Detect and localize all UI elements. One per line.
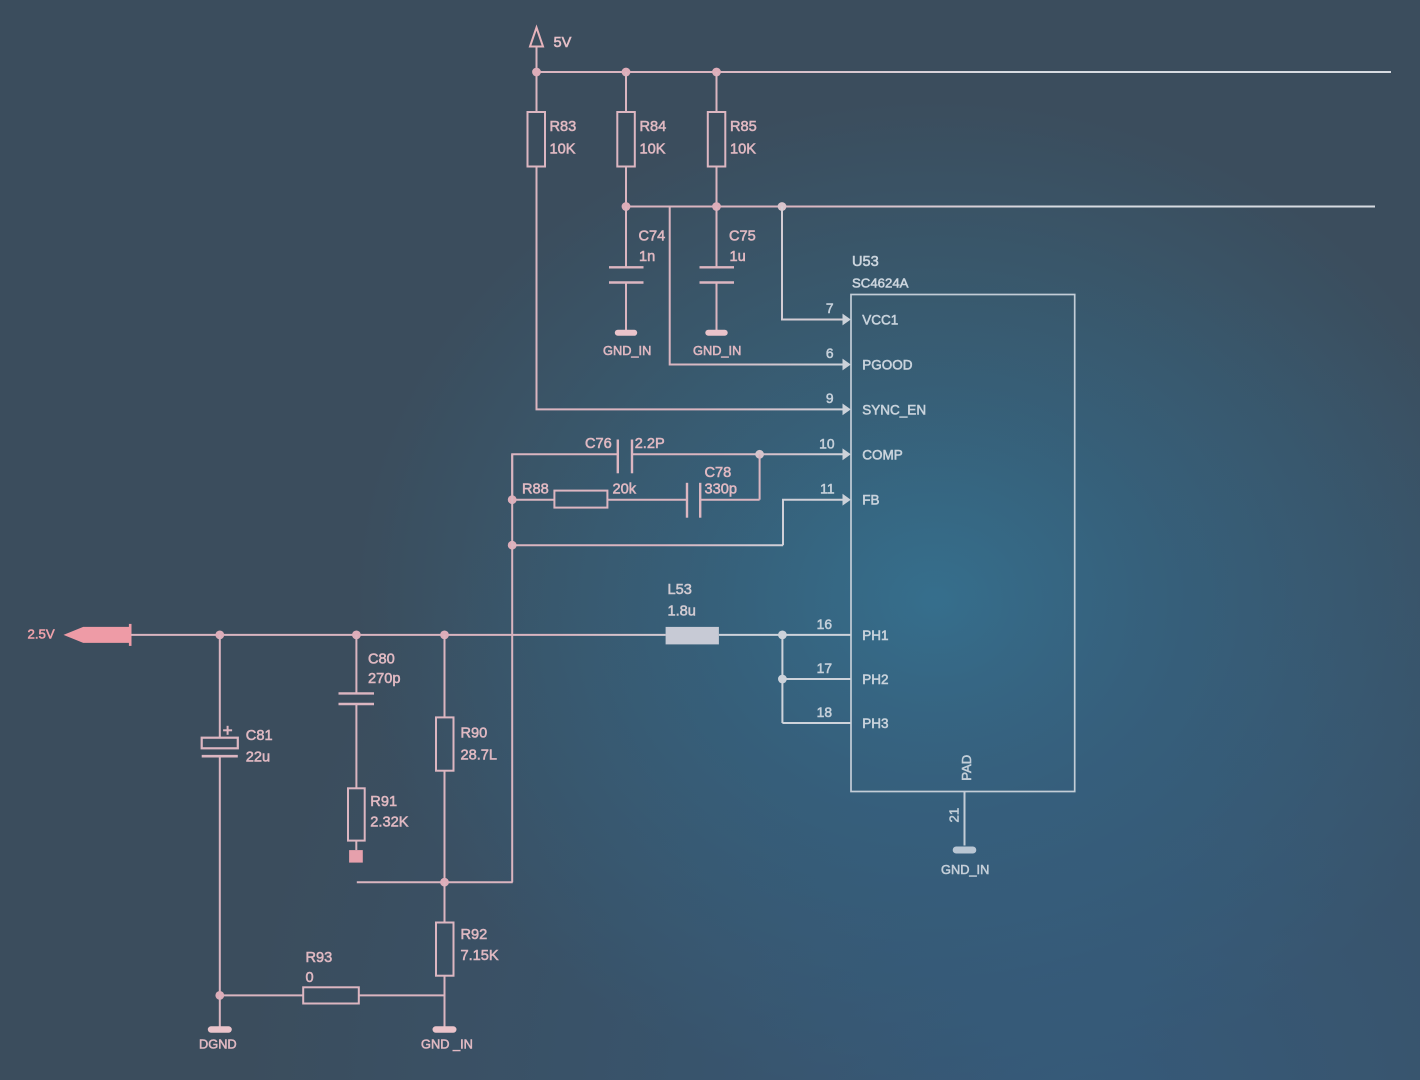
wire feedback bottom horizontal — [357, 881, 513, 883]
wire L53 to PH1 — [719, 634, 851, 636]
pin 7 arrowhead — [843, 314, 851, 326]
node dot C81 — [215, 631, 224, 640]
node junction dot rail1 at R83 — [532, 68, 541, 77]
svg-text:U53: U53 — [852, 254, 879, 270]
power flag 2.5V — [28, 624, 131, 646]
resistor R93 — [220, 950, 445, 1004]
node junction dot rail2 at C74 — [622, 202, 631, 211]
svg-text:C74: C74 — [639, 229, 666, 245]
node dot FB line left — [508, 541, 517, 550]
resistor R91 — [348, 788, 409, 840]
svg-text:10K: 10K — [550, 141, 576, 157]
pin 9 arrowhead — [843, 404, 851, 416]
svg-text:270p: 270p — [368, 671, 400, 687]
wire R84 top — [625, 72, 627, 112]
svg-text:GND _IN: GND _IN — [421, 1036, 473, 1051]
wire pin7 VCC1 branch — [782, 207, 844, 320]
capacitor C81 polarized — [202, 635, 273, 996]
capacitor C74 — [609, 207, 665, 331]
node dot R93 left / C81 bottom — [215, 991, 224, 1000]
svg-text:R91: R91 — [370, 794, 397, 810]
svg-text:9: 9 — [826, 391, 834, 406]
wire PH2 — [782, 678, 851, 680]
svg-text:DGND: DGND — [199, 1036, 237, 1051]
svg-text:R90: R90 — [461, 725, 488, 741]
node dot C80 — [352, 631, 361, 640]
svg-text:GND_IN: GND_IN — [603, 343, 651, 358]
wire vertical feedback column — [511, 454, 513, 882]
inductor L53 — [666, 582, 719, 644]
svg-text:R88: R88 — [522, 482, 549, 498]
ground DGND — [199, 1026, 237, 1051]
svg-text:2.5V: 2.5V — [28, 627, 55, 642]
svg-text:R85: R85 — [730, 119, 757, 135]
power symbol 5V — [530, 28, 572, 52]
svg-text:2.2P: 2.2P — [635, 436, 665, 452]
svg-text:21: 21 — [947, 808, 962, 823]
svg-text:PGOOD: PGOOD — [862, 357, 913, 372]
wire R85 top — [716, 72, 718, 112]
node dot COMP feedback — [755, 450, 764, 459]
wire second rail — [626, 206, 1375, 208]
svg-text:10K: 10K — [640, 141, 666, 157]
svg-text:R83: R83 — [550, 119, 577, 135]
svg-text:0: 0 — [306, 970, 314, 986]
wire COMP branch with C76 gap — [512, 454, 618, 499]
ground GND_IN under PAD — [941, 847, 989, 878]
svg-text:2.32K: 2.32K — [370, 815, 408, 831]
svg-text:R84: R84 — [640, 119, 667, 135]
wire R84 bottom — [625, 167, 627, 207]
node dot PH2 branch — [778, 675, 787, 684]
capacitor C75 — [700, 207, 756, 331]
svg-text:7: 7 — [826, 301, 834, 316]
terminal square below R91 — [349, 850, 363, 863]
wire top rail — [537, 71, 1392, 73]
svg-text:1.8u: 1.8u — [668, 603, 696, 619]
capacitor C80 — [339, 635, 401, 788]
svg-text:L53: L53 — [668, 582, 692, 598]
ground GND_IN under C74 — [603, 330, 651, 358]
node junction dot rail1 at R84 — [622, 68, 631, 77]
svg-text:C75: C75 — [729, 229, 756, 245]
ground GND _IN bottom — [421, 1026, 473, 1051]
svg-text:6: 6 — [826, 346, 834, 361]
svg-text:GND_IN: GND_IN — [941, 862, 989, 877]
wire 5V vertical to rail — [536, 47, 538, 113]
wire PH3 — [782, 722, 851, 724]
resistor R83 — [528, 112, 577, 167]
node dot PH1 branch — [778, 631, 787, 640]
wire R91 to terminal — [355, 841, 357, 851]
node dot R92 top — [440, 878, 449, 887]
ground GND_IN under C75 — [693, 330, 741, 358]
svg-text:18: 18 — [817, 705, 833, 720]
svg-text:SC4624A: SC4624A — [852, 276, 909, 291]
svg-text:C76: C76 — [585, 436, 612, 452]
resistor R92 — [436, 882, 499, 1026]
wire 2.5V rail to L53 — [445, 634, 666, 636]
resistor R90 — [436, 635, 497, 882]
wire pin6 PGOOD branch — [670, 207, 844, 365]
svg-text:VCC1: VCC1 — [862, 312, 898, 327]
node junction dot rail2 at VCC1 branch — [778, 202, 787, 211]
svg-text:PH3: PH3 — [862, 716, 888, 731]
svg-text:28.7L: 28.7L — [461, 748, 498, 764]
wire R83 bottom / pin9 SYNC_EN branch — [537, 167, 844, 410]
capacitor C76 — [585, 436, 665, 473]
svg-text:FB: FB — [862, 492, 879, 507]
svg-text:330p: 330p — [705, 482, 737, 498]
node dot R88 left — [508, 495, 517, 504]
svg-text:20k: 20k — [613, 482, 637, 498]
svg-text:R93: R93 — [306, 950, 333, 966]
svg-text:16: 16 — [817, 617, 833, 632]
svg-text:10: 10 — [819, 437, 835, 452]
svg-text:GND_IN: GND_IN — [693, 343, 741, 358]
svg-text:PAD: PAD — [959, 755, 974, 781]
pin 10 arrowhead — [843, 448, 851, 460]
svg-text:7.15K: 7.15K — [461, 948, 499, 964]
svg-text:SYNC_EN: SYNC_EN — [862, 402, 926, 417]
wire DGND drop — [219, 995, 221, 1026]
wire FB branch — [512, 544, 783, 546]
resistor R84 — [617, 112, 666, 167]
node junction dot rail1 at R85 — [712, 68, 721, 77]
svg-text:PH2: PH2 — [862, 672, 888, 687]
wire PH column vertical — [781, 635, 783, 723]
svg-text:11: 11 — [820, 482, 834, 497]
pin 6 arrowhead — [843, 359, 851, 371]
op-amp U53 IC body — [851, 254, 1075, 792]
wire 2.5V rail left — [131, 634, 445, 636]
resistor R88 — [512, 482, 687, 508]
svg-text:R92: R92 — [461, 927, 488, 943]
node junction dot rail2 at C75 — [712, 202, 721, 211]
capacitor C78 — [687, 454, 760, 517]
node dot R90 — [440, 631, 449, 640]
svg-text:PH1: PH1 — [862, 628, 888, 643]
svg-text:5V: 5V — [554, 35, 572, 51]
svg-text:1n: 1n — [639, 249, 655, 265]
svg-text:10K: 10K — [730, 141, 756, 157]
svg-text:C80: C80 — [368, 651, 395, 667]
svg-text:COMP: COMP — [862, 447, 903, 462]
wire R85 bottom — [716, 167, 718, 207]
svg-text:17: 17 — [817, 661, 832, 676]
resistor R85 — [708, 112, 757, 167]
pin 11 arrowhead — [843, 494, 851, 506]
svg-text:1u: 1u — [730, 249, 746, 265]
svg-text:22u: 22u — [246, 750, 270, 766]
wire PAD pin 21 — [964, 792, 966, 846]
svg-text:C78: C78 — [705, 465, 732, 481]
svg-text:C81: C81 — [246, 728, 273, 744]
